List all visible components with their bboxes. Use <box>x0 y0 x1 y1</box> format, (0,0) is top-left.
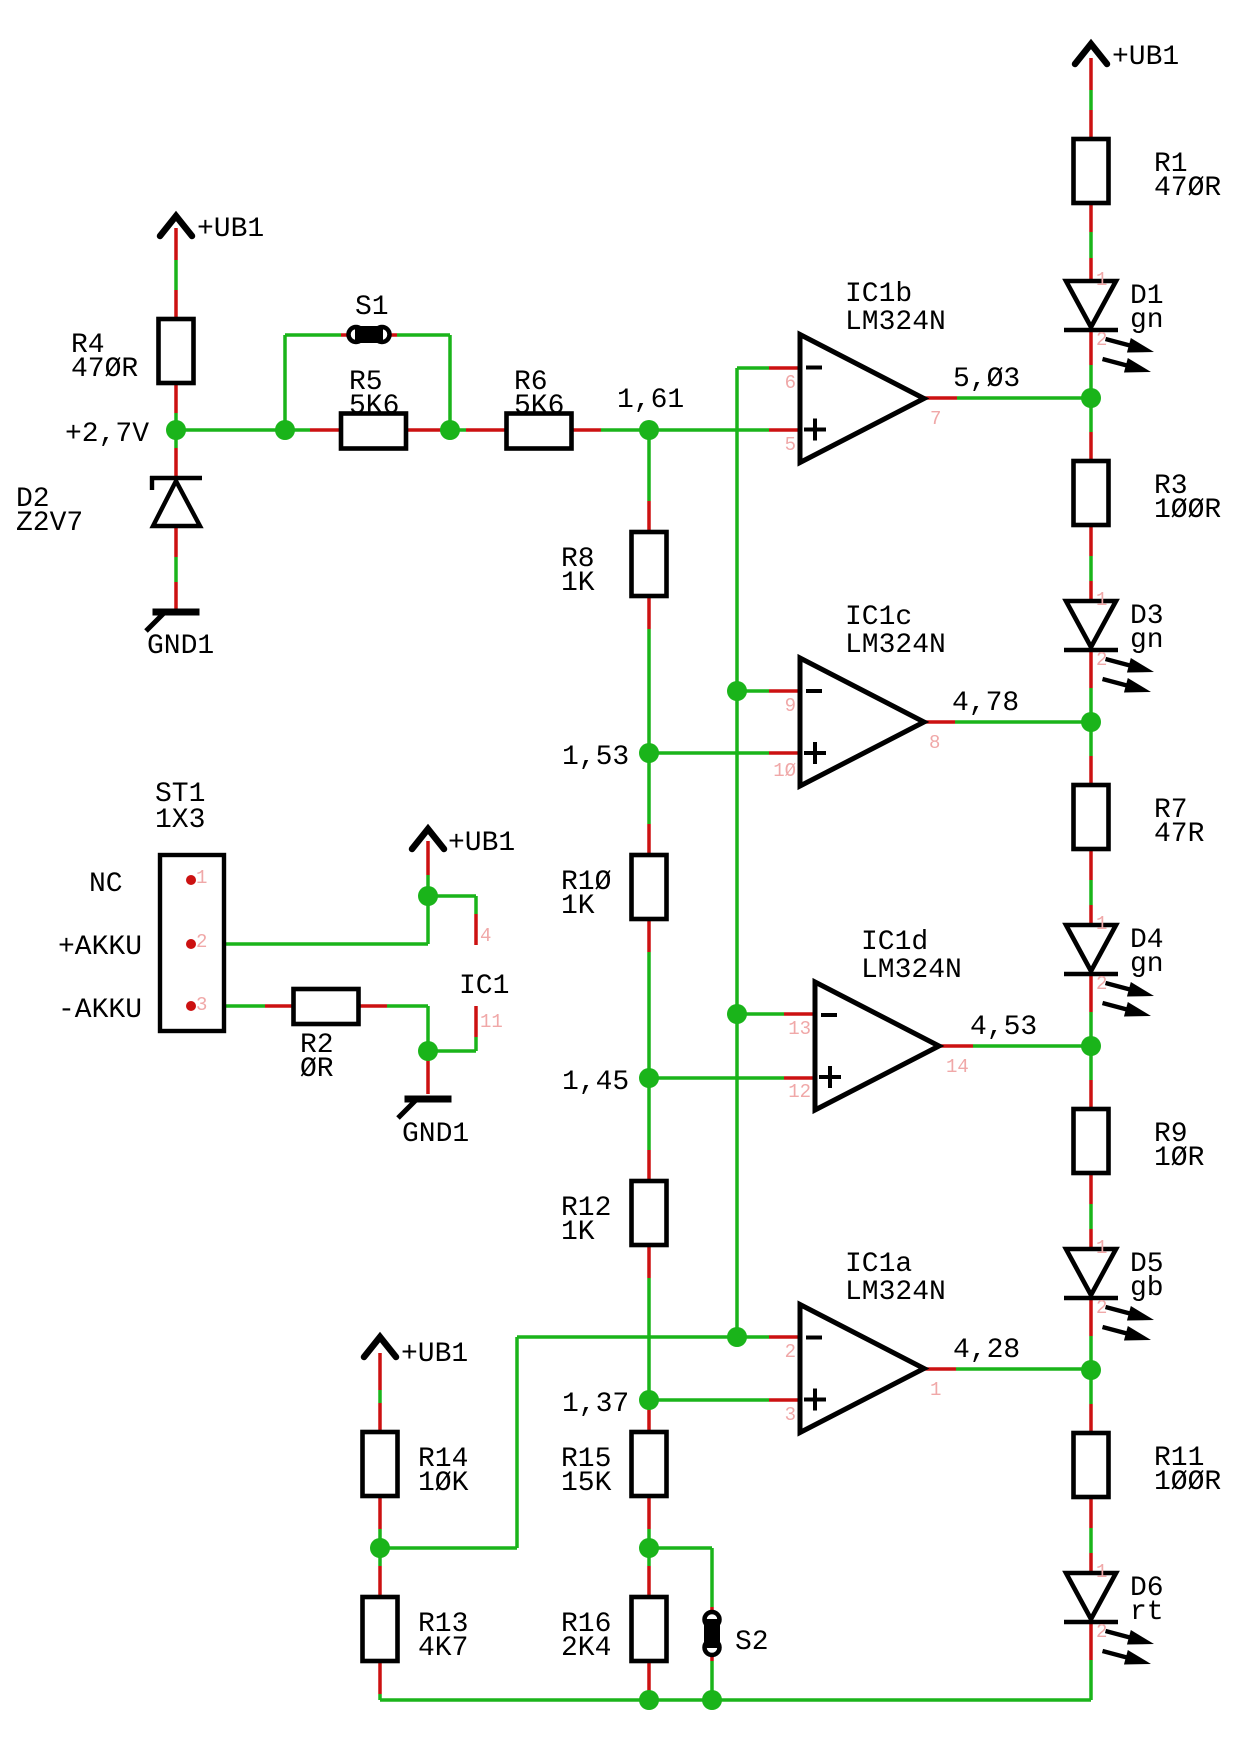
svg-text:9: 9 <box>785 695 796 717</box>
svg-text:2: 2 <box>196 931 207 953</box>
svg-text:1: 1 <box>1096 269 1107 291</box>
svg-text:1ØK: 1ØK <box>418 1468 469 1499</box>
svg-text:gb: gb <box>1130 1273 1164 1304</box>
svg-text:4,53: 4,53 <box>970 1012 1037 1043</box>
svg-text:+UB1: +UB1 <box>448 828 515 859</box>
svg-text:1ØØR: 1ØØR <box>1154 495 1221 526</box>
svg-text:1ØR: 1ØR <box>1154 1143 1205 1174</box>
svg-text:S1: S1 <box>355 292 389 323</box>
svg-text:gn: gn <box>1130 625 1164 656</box>
svg-text:gn: gn <box>1130 305 1164 336</box>
svg-text:GND1: GND1 <box>147 631 214 662</box>
svg-text:1,45: 1,45 <box>562 1067 629 1098</box>
svg-text:6: 6 <box>785 372 796 394</box>
svg-text:+UB1: +UB1 <box>197 214 264 245</box>
svg-text:1,37: 1,37 <box>562 1389 629 1420</box>
svg-text:S2: S2 <box>735 1627 769 1658</box>
svg-text:11: 11 <box>480 1011 503 1033</box>
svg-text:gn: gn <box>1130 949 1164 980</box>
svg-text:4: 4 <box>480 925 491 947</box>
svg-text:3: 3 <box>785 1404 796 1426</box>
svg-text:1: 1 <box>1096 1237 1107 1259</box>
svg-text:IC1d: IC1d <box>861 927 928 958</box>
svg-text:IC1a: IC1a <box>845 1249 912 1280</box>
svg-text:1,61: 1,61 <box>617 385 684 416</box>
svg-text:GND1: GND1 <box>402 1119 469 1150</box>
svg-text:4K7: 4K7 <box>418 1633 468 1664</box>
svg-text:4,28: 4,28 <box>953 1335 1020 1366</box>
svg-text:ØR: ØR <box>300 1054 334 1085</box>
svg-text:3: 3 <box>196 994 207 1016</box>
svg-text:IC1: IC1 <box>459 971 509 1002</box>
svg-text:+AKKU: +AKKU <box>58 932 142 963</box>
svg-text:LM324N: LM324N <box>845 1277 946 1308</box>
svg-text:LM324N: LM324N <box>861 955 962 986</box>
svg-text:1K: 1K <box>561 891 595 922</box>
svg-text:15K: 15K <box>561 1468 612 1499</box>
svg-text:1: 1 <box>1096 1561 1107 1583</box>
svg-text:1: 1 <box>196 867 207 889</box>
svg-text:13: 13 <box>788 1018 811 1040</box>
svg-text:2: 2 <box>1096 329 1107 351</box>
svg-text:2K4: 2K4 <box>561 1633 611 1664</box>
svg-text:rt: rt <box>1130 1597 1164 1628</box>
svg-text:1K: 1K <box>561 568 595 599</box>
svg-text:8: 8 <box>929 732 940 754</box>
svg-text:47ØR: 47ØR <box>1154 173 1221 204</box>
svg-text:NC: NC <box>89 869 123 900</box>
svg-text:12: 12 <box>788 1081 811 1103</box>
svg-text:IC1b: IC1b <box>845 279 912 310</box>
svg-text:1Ø: 1Ø <box>773 760 796 782</box>
svg-text:LM324N: LM324N <box>845 307 946 338</box>
svg-text:2: 2 <box>1096 1297 1107 1319</box>
svg-text:5K6: 5K6 <box>349 391 399 422</box>
svg-text:1: 1 <box>1096 589 1107 611</box>
svg-text:2: 2 <box>1096 1621 1107 1643</box>
svg-text:+UB1: +UB1 <box>1112 42 1179 73</box>
svg-text:1K: 1K <box>561 1217 595 1248</box>
svg-text:+2,7V: +2,7V <box>65 419 149 450</box>
svg-text:1: 1 <box>930 1379 941 1401</box>
svg-text:4,78: 4,78 <box>952 688 1019 719</box>
svg-text:2: 2 <box>785 1341 796 1363</box>
svg-text:1ØØR: 1ØØR <box>1154 1467 1221 1498</box>
svg-text:14: 14 <box>946 1056 969 1078</box>
svg-text:5,Ø3: 5,Ø3 <box>953 364 1020 395</box>
svg-text:2: 2 <box>1096 973 1107 995</box>
svg-text:1X3: 1X3 <box>155 805 205 836</box>
svg-text:+UB1: +UB1 <box>401 1339 468 1370</box>
svg-text:5: 5 <box>785 434 796 456</box>
svg-text:1,53: 1,53 <box>562 742 629 773</box>
svg-text:LM324N: LM324N <box>845 630 946 661</box>
svg-text:2: 2 <box>1096 649 1107 671</box>
svg-text:-AKKU: -AKKU <box>58 995 142 1026</box>
svg-text:47ØR: 47ØR <box>71 354 138 385</box>
svg-text:47R: 47R <box>1154 819 1205 850</box>
svg-text:IC1c: IC1c <box>845 602 912 633</box>
svg-text:Z2V7: Z2V7 <box>16 508 83 539</box>
svg-text:7: 7 <box>930 408 941 430</box>
svg-text:1: 1 <box>1096 913 1107 935</box>
svg-text:5K6: 5K6 <box>514 391 564 422</box>
